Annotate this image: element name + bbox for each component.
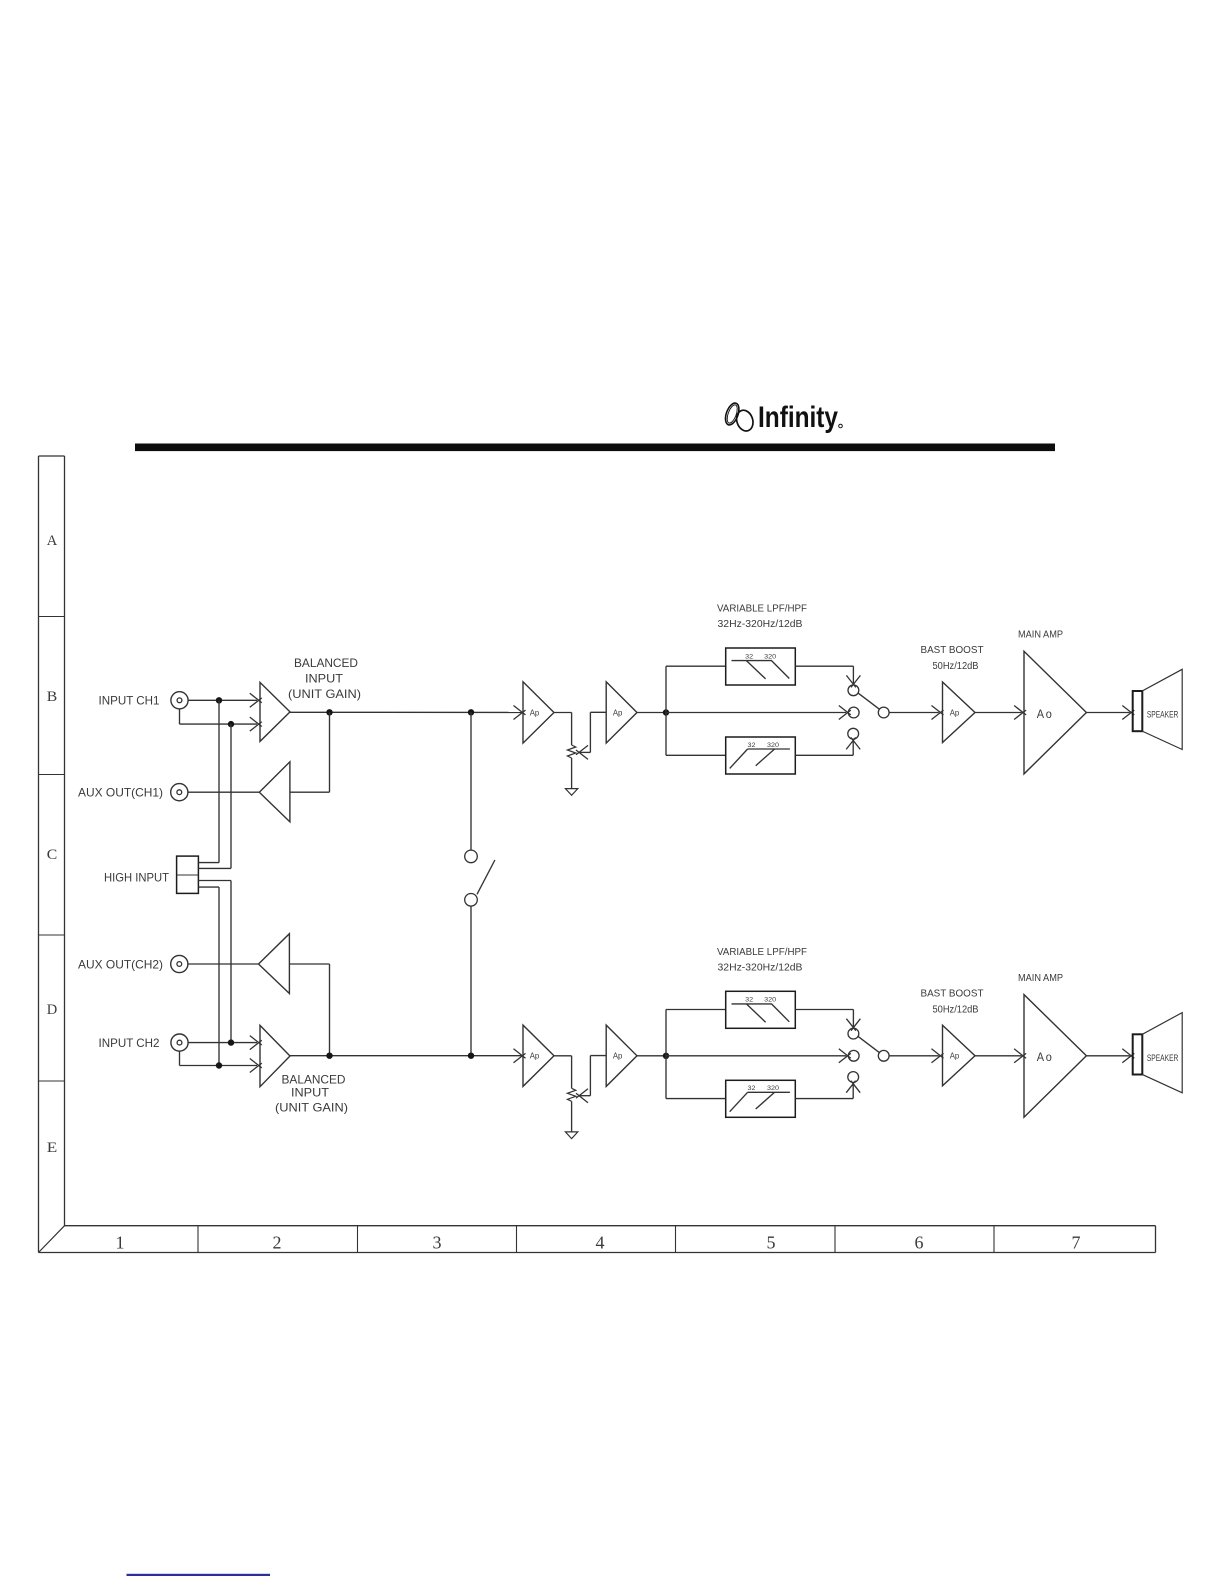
svg-text:HIGH INPUT: HIGH INPUT (104, 871, 170, 885)
svg-text:INPUT: INPUT (291, 1086, 330, 1100)
svg-text:INPUT: INPUT (305, 672, 344, 686)
svg-text:32: 32 (748, 742, 756, 749)
svg-text:3: 3 (433, 1233, 442, 1253)
svg-text:32: 32 (745, 653, 753, 660)
svg-text:MAIN AMP: MAIN AMP (1018, 973, 1063, 984)
svg-text:Ap: Ap (530, 708, 540, 717)
svg-text:Ap: Ap (613, 708, 623, 717)
svg-text:Ao: Ao (1037, 707, 1054, 721)
svg-text:SPEAKER: SPEAKER (1147, 1053, 1179, 1064)
svg-text:Ap: Ap (950, 1052, 960, 1061)
svg-text:32: 32 (745, 997, 753, 1004)
svg-text:A: A (47, 533, 58, 549)
svg-text:BALANCED: BALANCED (282, 1072, 346, 1086)
svg-text:32Hz-320Hz/12dB: 32Hz-320Hz/12dB (718, 962, 803, 973)
svg-text:Ao: Ao (1037, 1050, 1054, 1064)
svg-text:Infinity: Infinity (758, 401, 838, 434)
svg-text:2: 2 (273, 1233, 282, 1253)
svg-text:SPEAKER: SPEAKER (1147, 710, 1179, 721)
svg-text:C: C (47, 847, 58, 863)
svg-text:32: 32 (748, 1085, 756, 1092)
svg-text:1: 1 (116, 1233, 125, 1253)
svg-text:Ap: Ap (613, 1052, 623, 1061)
svg-text:E: E (47, 1140, 58, 1156)
svg-text:INPUT CH2: INPUT CH2 (99, 1036, 160, 1050)
svg-text:AUX OUT(CH1): AUX OUT(CH1) (78, 786, 163, 800)
svg-text:4: 4 (596, 1233, 605, 1253)
svg-text:MAIN AMP: MAIN AMP (1018, 630, 1063, 641)
svg-text:320: 320 (764, 653, 776, 660)
svg-text:320: 320 (767, 742, 779, 749)
svg-text:320: 320 (764, 997, 776, 1004)
svg-text:(UNIT GAIN): (UNIT GAIN) (275, 1101, 348, 1115)
svg-text:Ap: Ap (530, 1052, 540, 1061)
svg-text:50Hz/12dB: 50Hz/12dB (933, 1004, 979, 1015)
svg-text:320: 320 (767, 1085, 779, 1092)
svg-text:50Hz/12dB: 50Hz/12dB (933, 661, 979, 672)
svg-text:VARIABLE LPF/HPF: VARIABLE LPF/HPF (717, 947, 807, 958)
svg-text:7: 7 (1072, 1233, 1081, 1253)
svg-text:Ap: Ap (950, 708, 960, 717)
svg-text:D: D (47, 1002, 58, 1018)
svg-text:6: 6 (915, 1233, 924, 1253)
svg-text:AUX OUT(CH2): AUX OUT(CH2) (78, 957, 163, 971)
svg-text:32Hz-320Hz/12dB: 32Hz-320Hz/12dB (718, 619, 803, 630)
svg-text:BAST BOOST: BAST BOOST (921, 988, 984, 999)
svg-text:INPUT CH1: INPUT CH1 (99, 694, 160, 708)
svg-text:BAST BOOST: BAST BOOST (921, 645, 984, 656)
svg-text:(UNIT GAIN): (UNIT GAIN) (288, 687, 361, 701)
svg-text:5: 5 (767, 1233, 776, 1253)
svg-text:BALANCED: BALANCED (294, 656, 358, 670)
svg-text:B: B (47, 689, 58, 705)
svg-text:VARIABLE LPF/HPF: VARIABLE LPF/HPF (717, 604, 807, 615)
